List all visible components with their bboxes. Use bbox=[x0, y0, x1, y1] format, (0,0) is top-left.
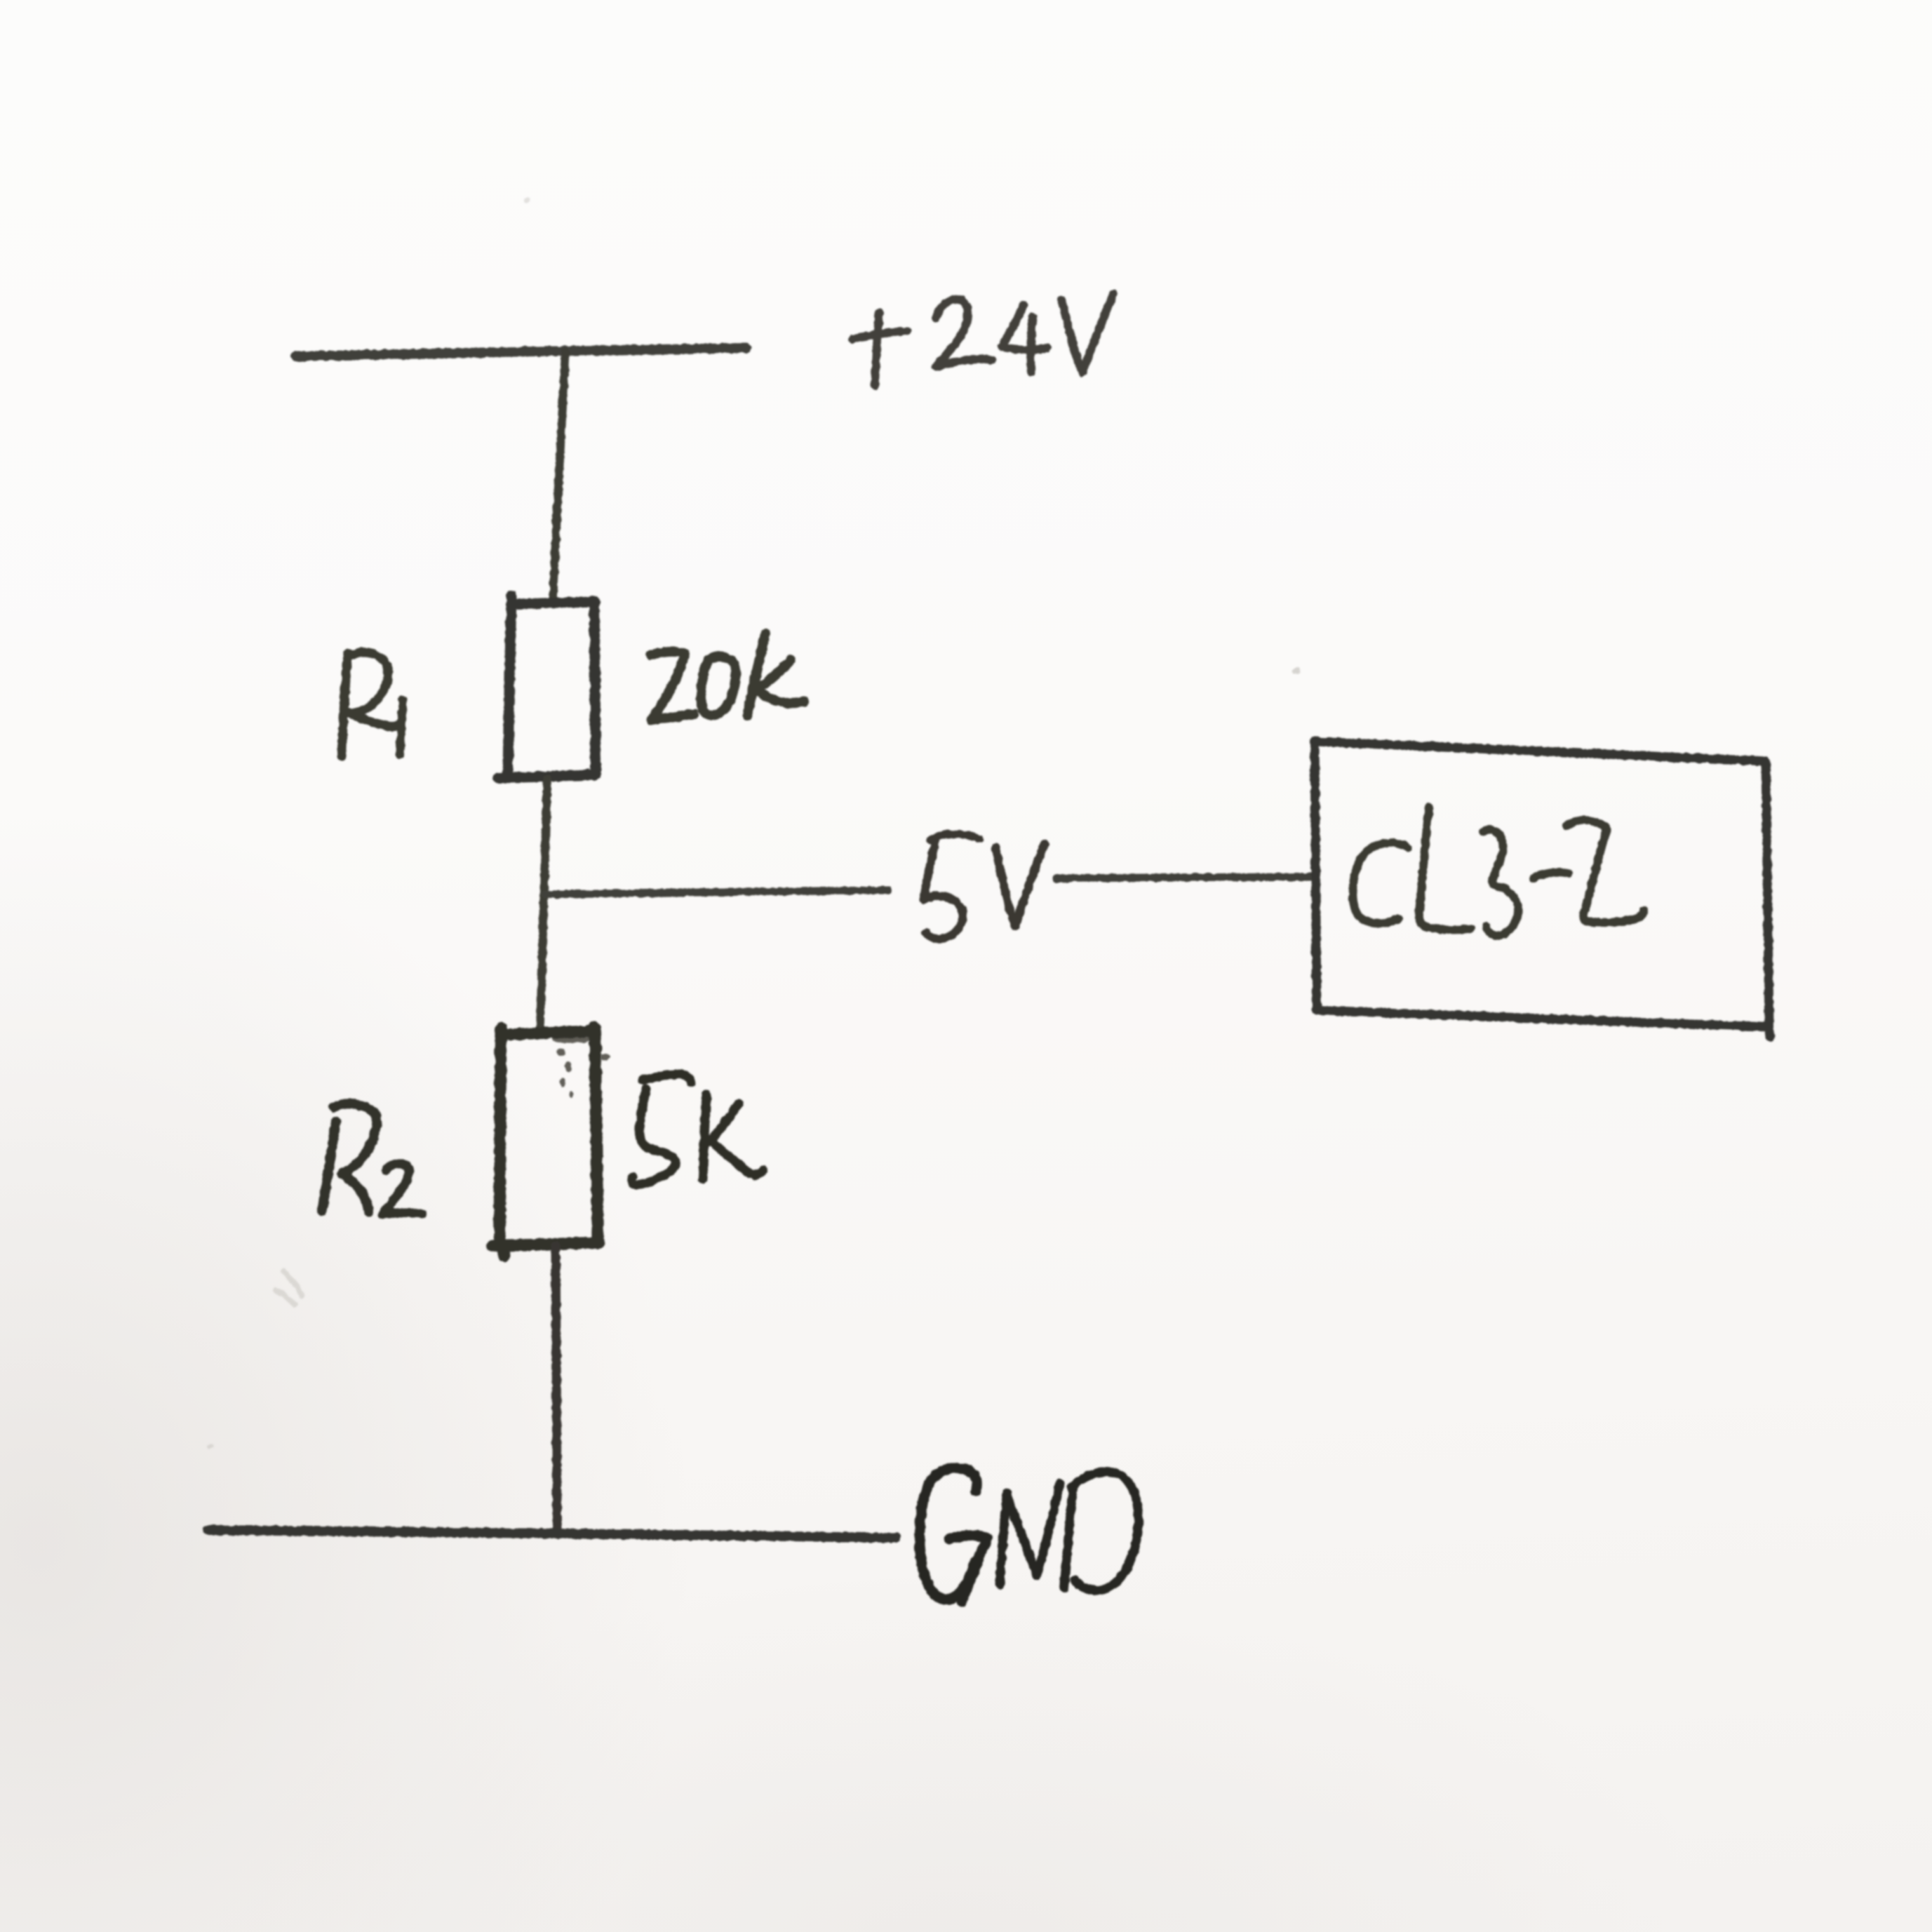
power rail +24V bbox=[295, 348, 746, 356]
wire R2 to ground bbox=[556, 1246, 557, 1535]
ground rail GND bbox=[208, 1530, 896, 1538]
resistor R1 bbox=[498, 596, 596, 778]
label 5V bbox=[924, 834, 1045, 939]
value 5K bbox=[632, 1074, 763, 1185]
wire R1 to node to R2 bbox=[540, 779, 547, 1033]
wire 5V to CL3-Z bbox=[1056, 877, 1313, 878]
module CL3-Z box bbox=[1315, 742, 1770, 1037]
value 20K bbox=[650, 633, 804, 720]
label R1 bbox=[342, 652, 403, 756]
label CL3-Z bbox=[1353, 807, 1644, 935]
resistor R2 bbox=[492, 1027, 599, 1256]
label +24V bbox=[853, 294, 1113, 385]
label R2 bbox=[322, 1103, 422, 1214]
label GND bbox=[920, 1468, 1139, 1602]
node wire to 5V bbox=[545, 890, 888, 894]
wire rail to R1 bbox=[553, 352, 565, 603]
